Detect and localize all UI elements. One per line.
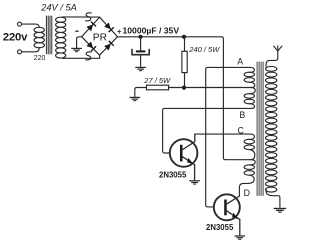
ground (R2)	[130, 97, 141, 101]
transformer T2 core	[257, 62, 263, 196]
AC squiggle bottom	[86, 52, 92, 60]
node junction cap	[139, 35, 143, 39]
svg-text:D: D	[244, 188, 250, 198]
node minus label	[75, 31, 78, 32]
svg-text:10000µF / 35V: 10000µF / 35V	[123, 26, 180, 36]
capacitor C1 wire bottom	[140, 55, 142, 67]
wire tap C to Q1 collector	[195, 133, 251, 135]
capacitor C1 wire top	[140, 37, 142, 50]
svg-text:C: C	[238, 126, 245, 136]
wire bridge minus to ground	[77, 37, 82, 48]
resistor R1 240ohm body	[182, 51, 187, 72]
bridge rectifier PR diamond	[82, 17, 118, 55]
svg-text:B: B	[239, 110, 245, 120]
wire secondary bottom to bridge AC bottom stub	[63, 55, 100, 58]
node junction R1 top	[182, 35, 186, 39]
resistor R2 lead right / wire to center tap 1	[169, 87, 251, 89]
transformer T2 primary winding section A-CT	[244, 72, 254, 82]
svg-text:2N3055: 2N3055	[206, 223, 234, 232]
antenna	[274, 46, 282, 51]
terminal top	[18, 22, 22, 26]
resistor R1 lead bottom	[184, 73, 186, 88]
diode D1 (left to top)	[86, 21, 96, 31]
svg-text:PR: PR	[93, 32, 107, 43]
ground (Q2 emitter)	[235, 235, 246, 239]
terminal bottom	[18, 50, 22, 54]
svg-text:220v: 220v	[3, 32, 28, 44]
ground (secondary)	[274, 208, 287, 213]
svg-text:+: +	[117, 27, 122, 36]
ground (capacitor)	[135, 67, 146, 71]
transistor Q2	[214, 194, 240, 235]
transformer T2 primary winding section CT-B	[244, 94, 254, 104]
wire tap A	[206, 67, 250, 207]
svg-text:27 / 5W: 27 / 5W	[143, 76, 171, 85]
transformer T2 secondary coil	[266, 66, 277, 192]
resistor R2 lead left	[135, 88, 147, 97]
wire positive rail	[118, 37, 252, 160]
diode D2 (top to right)	[104, 22, 114, 32]
wire secondary top to antenna	[266, 51, 278, 67]
wire bottom terminal to primary	[22, 48, 40, 52]
node junction R1/R2	[182, 86, 186, 90]
resistor R1 lead top	[184, 37, 186, 52]
svg-text:220: 220	[34, 55, 46, 62]
capacitor C1 plus plate	[136, 50, 146, 52]
wire secondary top to bridge AC top	[63, 16, 100, 18]
svg-text:2N3055: 2N3055	[159, 171, 187, 180]
wire tap B to Q1 base	[163, 108, 251, 153]
wire secondary bottom to ground	[266, 188, 280, 207]
svg-text:240 / 5W: 240 / 5W	[188, 45, 220, 54]
transformer T1 secondary coil	[56, 17, 66, 58]
ground (Q1 emitter)	[189, 180, 200, 184]
svg-text:A: A	[237, 56, 243, 66]
svg-text:24V / 5A: 24V / 5A	[40, 2, 77, 12]
transformer T1 primary coil	[34, 27, 44, 47]
wire tap D to Q2 collector	[238, 187, 240, 196]
wire spiral connectors primary	[239, 67, 255, 187]
transformer T2 primary winding section C-CT2	[244, 139, 254, 149]
ground (bridge minus)	[71, 48, 82, 52]
transistor Q1	[170, 134, 198, 180]
transformer T2 primary winding section CT2-D	[244, 165, 254, 175]
AC squiggle top	[86, 13, 92, 21]
transformer T1 core	[46, 16, 51, 54]
wire top terminal to primary	[22, 24, 40, 27]
diode D3 (left to bottom)	[86, 41, 96, 51]
capacitor C1 minus plate	[132, 49, 149, 54]
diode D4 (bottom to right)	[104, 40, 114, 50]
resistor R2 27ohm body	[147, 85, 169, 90]
